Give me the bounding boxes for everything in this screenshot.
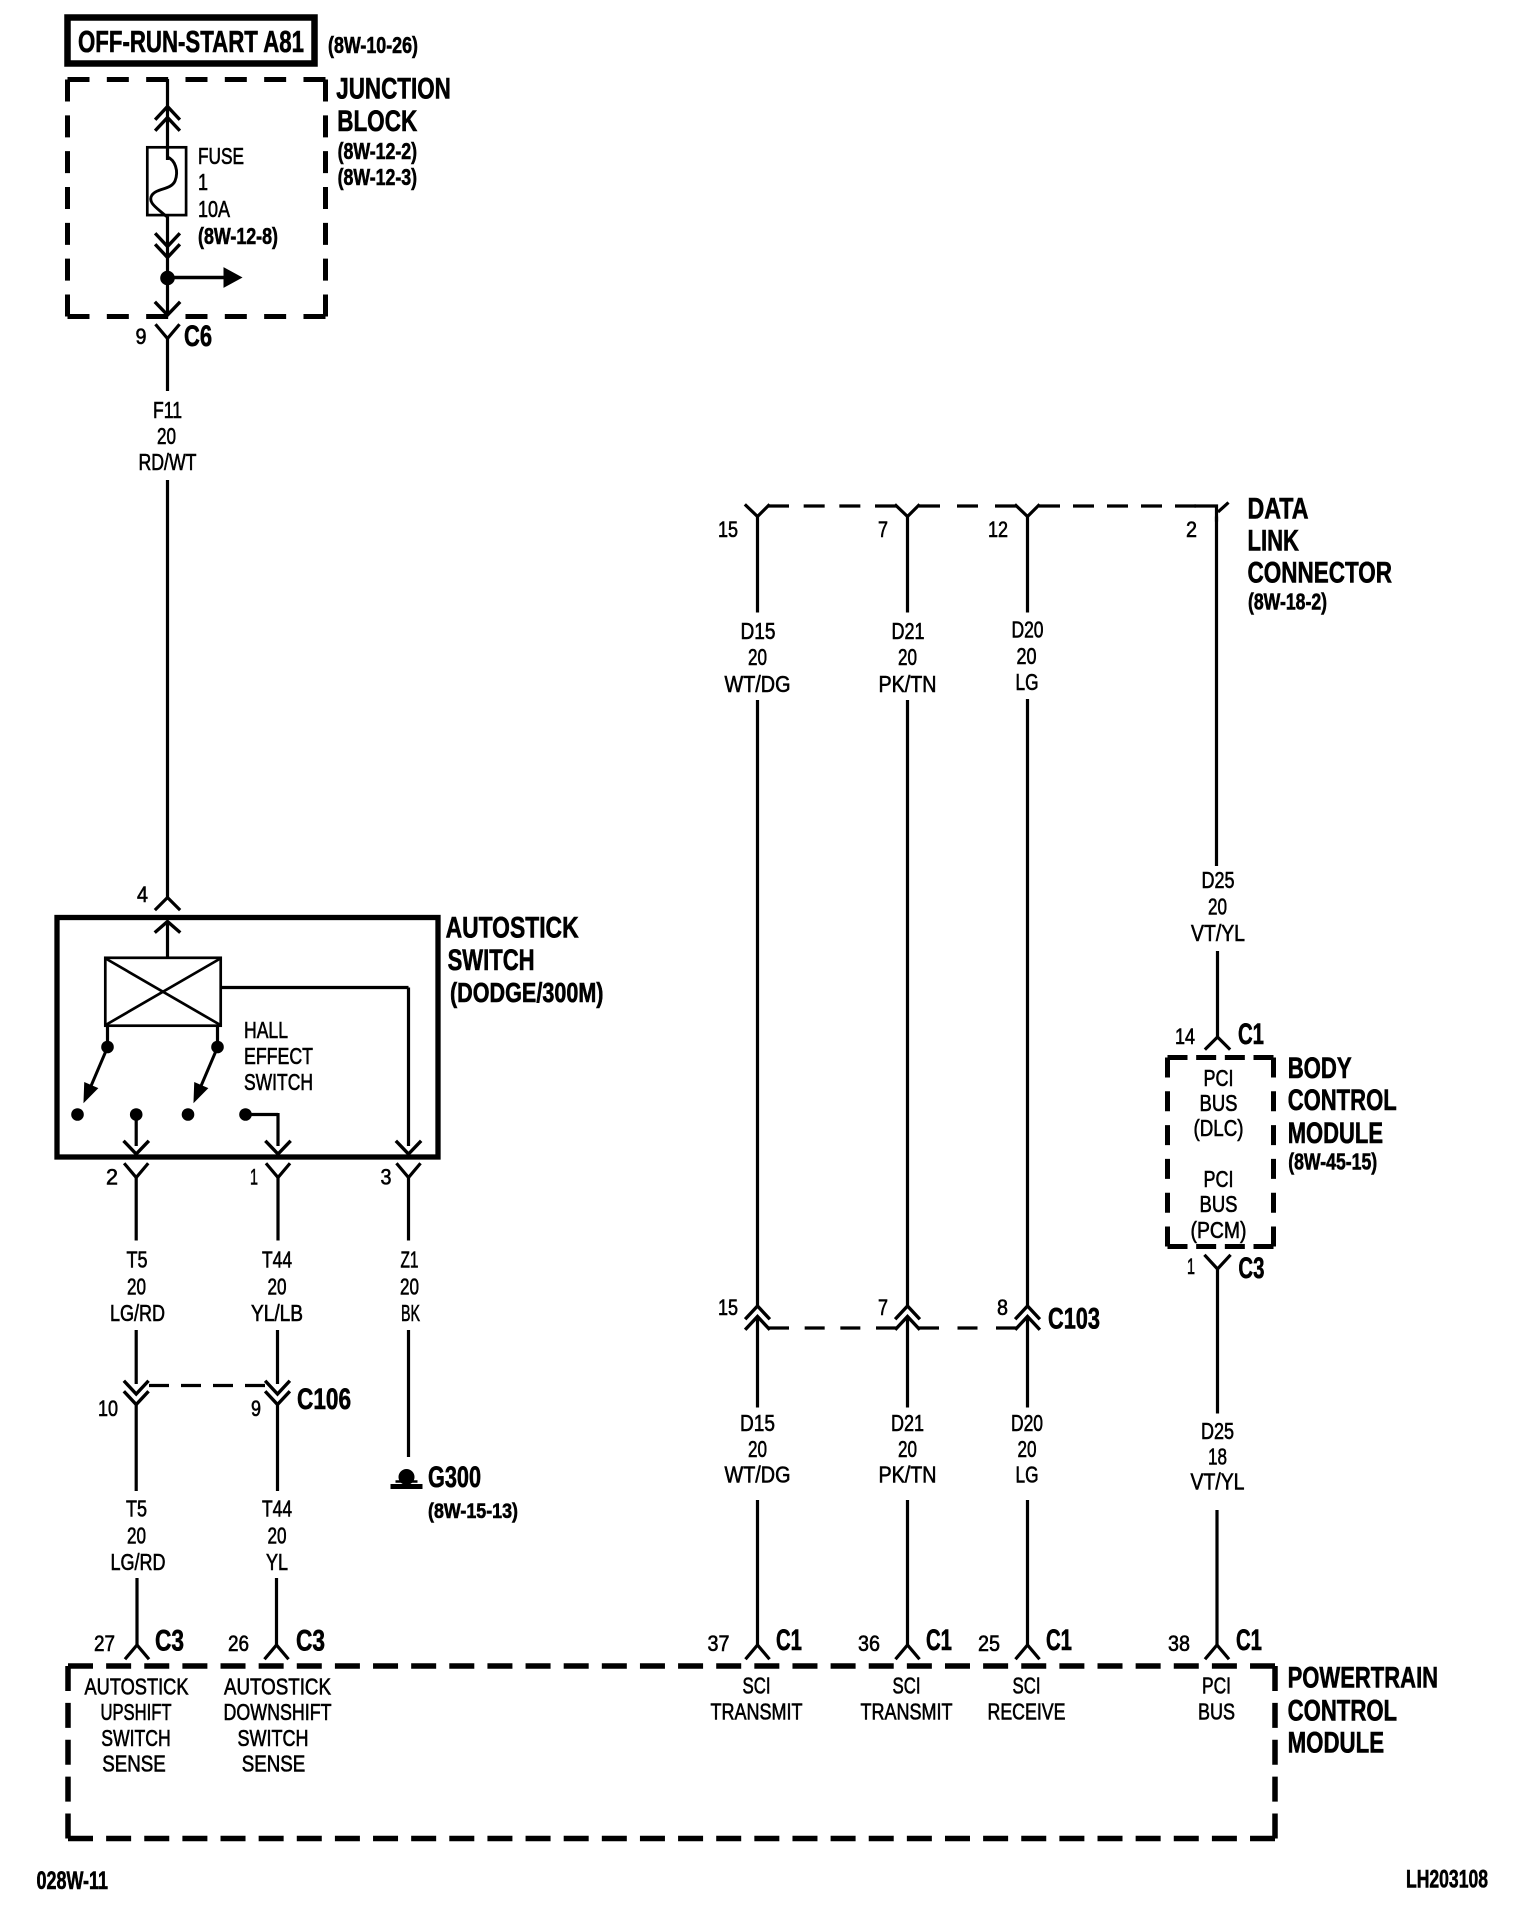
arrowhead at pin 3 — [397, 1142, 420, 1154]
switch contact left lower — [71, 1108, 84, 1121]
connector C106 pin 9 — [251, 1382, 289, 1421]
svg-text:RD/WT: RD/WT — [139, 449, 197, 475]
connector PCM pin 37 C1 — [708, 1624, 803, 1658]
svg-text:VT/YL: VT/YL — [1191, 920, 1245, 946]
svg-text:20: 20 — [157, 423, 176, 449]
svg-text:20: 20 — [127, 1523, 146, 1549]
svg-text:18: 18 — [1208, 1444, 1227, 1470]
svg-text:PCI: PCI — [1204, 1166, 1234, 1192]
wire D25 to PCM pin 38 — [1215, 1510, 1218, 1645]
junction block labels — [336, 73, 451, 190]
svg-text:C3: C3 — [296, 1625, 325, 1658]
wire label F11 20 RD/WT — [139, 397, 197, 475]
svg-text:YL: YL — [266, 1549, 288, 1575]
wire D20 to C103 — [1026, 699, 1029, 1306]
svg-text:C1: C1 — [1236, 1624, 1262, 1657]
connector chevrons above fuse — [156, 107, 178, 130]
arrowhead into C6 — [156, 303, 179, 315]
data link connector labels — [1248, 492, 1393, 614]
body control module dashed box — [1168, 1055, 1274, 1060]
svg-text:1: 1 — [1187, 1254, 1195, 1279]
svg-text:SWITCH: SWITCH — [448, 944, 535, 977]
svg-text:JUNCTION: JUNCTION — [336, 73, 451, 106]
svg-text:27: 27 — [94, 1631, 115, 1656]
wire D20 below C103 — [1026, 1317, 1029, 1408]
svg-text:EFFECT: EFFECT — [244, 1043, 313, 1069]
switch contact right lower — [182, 1108, 195, 1121]
svg-text:LG: LG — [1016, 1462, 1039, 1488]
autostick switch labels — [446, 912, 604, 1009]
svg-text:37: 37 — [708, 1631, 730, 1656]
wire D15 to C103 — [756, 700, 759, 1306]
wire label T5 20 LG/RD lower — [111, 1496, 166, 1576]
wire label D20 20 LG lower — [1011, 1410, 1043, 1488]
connector BCM pin 1 C3 — [1187, 1252, 1264, 1285]
hall effect device crossed box — [105, 958, 220, 1026]
wire: junction node to connector C6 — [166, 278, 169, 315]
C103 dashed link 7-8 — [919, 1326, 1016, 1329]
svg-text:D21: D21 — [891, 1410, 924, 1436]
DLC pin 7 — [878, 506, 919, 543]
svg-text:1: 1 — [250, 1165, 258, 1190]
wire T5 below C106 — [135, 1405, 138, 1492]
svg-text:20: 20 — [1017, 643, 1037, 669]
autostick switch box — [57, 918, 438, 1158]
svg-text:20: 20 — [1018, 1436, 1037, 1462]
svg-text:C103: C103 — [1048, 1303, 1100, 1336]
svg-text:C1: C1 — [1238, 1018, 1264, 1051]
wire D25 from BCM to label — [1216, 1269, 1219, 1414]
wire label T44 20 YL/LB — [251, 1247, 303, 1327]
svg-text:TRANSMIT: TRANSMIT — [861, 1699, 953, 1725]
wire label Z1 20 BK — [400, 1247, 420, 1327]
wire T44 upper — [276, 1178, 279, 1241]
connector pin 4 of autostick switch — [137, 882, 179, 909]
ground G300 — [391, 1461, 519, 1523]
svg-text:T44: T44 — [262, 1496, 292, 1522]
svg-text:SCI: SCI — [893, 1673, 921, 1699]
PCM internal labels — [85, 1673, 1236, 1777]
svg-text:C3: C3 — [1238, 1252, 1264, 1285]
svg-text:C106: C106 — [297, 1383, 351, 1416]
svg-text:9: 9 — [251, 1396, 261, 1421]
svg-text:C3: C3 — [155, 1625, 184, 1658]
wire label D25 20 VT/YL — [1191, 867, 1245, 946]
svg-text:7: 7 — [878, 1295, 888, 1320]
svg-text:WT/DG: WT/DG — [725, 1462, 791, 1488]
svg-text:D15: D15 — [740, 1410, 775, 1436]
power feed box OFF-RUN-START A81 — [68, 18, 315, 64]
connector BCM pin 14 C1 — [1175, 1018, 1264, 1051]
wire D20 upper — [1026, 517, 1029, 613]
wire: pin 4 to hall effect device — [166, 922, 169, 957]
wire D20 to PCM pin 25 — [1026, 1500, 1029, 1645]
svg-text:20: 20 — [898, 644, 917, 670]
svg-text:15: 15 — [718, 1295, 738, 1320]
arrowhead at pin 2 — [125, 1142, 148, 1154]
wire D15 upper — [756, 517, 759, 613]
DLC pin 12 — [988, 506, 1039, 543]
svg-text:(DODGE/300M): (DODGE/300M) — [450, 977, 604, 1008]
svg-text:LH203108: LH203108 — [1406, 1866, 1488, 1894]
svg-text:DATA: DATA — [1248, 492, 1309, 525]
DLC pin 15 — [718, 506, 769, 543]
svg-text:HALL: HALL — [244, 1017, 288, 1043]
branch arrow to other circuits — [168, 268, 242, 287]
svg-text:SWITCH: SWITCH — [101, 1725, 171, 1751]
label HALL EFFECT SWITCH — [244, 1017, 313, 1095]
wire D15 to PCM pin 37 — [756, 1500, 759, 1645]
wire label T44 20 YL lower — [262, 1496, 292, 1576]
DLC pin 2 — [1186, 503, 1229, 543]
svg-text:OFF-RUN-START A81: OFF-RUN-START A81 — [78, 24, 304, 59]
wire label T5 20 LG/RD — [110, 1247, 165, 1327]
switch contact stub right — [211, 1025, 224, 1053]
svg-text:AUTOSTICK: AUTOSTICK — [446, 912, 579, 945]
svg-text:12: 12 — [988, 517, 1008, 542]
svg-text:20: 20 — [748, 644, 767, 670]
BCM internal labels PCI BUS — [1191, 1065, 1247, 1243]
wire D21 upper — [906, 517, 909, 613]
svg-text:20: 20 — [748, 1436, 767, 1462]
svg-text:CONTROL: CONTROL — [1288, 1694, 1398, 1727]
svg-text:20: 20 — [400, 1274, 419, 1300]
svg-text:3: 3 — [381, 1165, 392, 1190]
svg-text:20: 20 — [1208, 894, 1227, 920]
C103 dashed link 15-7 — [769, 1326, 896, 1329]
wire T5 to PCM pin 27 — [135, 1578, 138, 1645]
svg-text:UPSHIFT: UPSHIFT — [101, 1699, 172, 1725]
connector PCM pin 26 C3 — [228, 1625, 325, 1659]
wire D21 to PCM pin 36 — [906, 1500, 909, 1645]
svg-text:2: 2 — [106, 1165, 118, 1190]
svg-text:1: 1 — [198, 169, 208, 195]
connector chevrons below fuse — [156, 235, 178, 258]
svg-text:C1: C1 — [1046, 1624, 1072, 1657]
powertrain control module dashed box — [68, 1663, 1275, 1669]
svg-text:MODULE: MODULE — [1288, 1117, 1383, 1150]
svg-text:(DLC): (DLC) — [1194, 1115, 1244, 1141]
junction block dashed box — [68, 77, 326, 82]
svg-text:(8W-15-13): (8W-15-13) — [428, 1500, 518, 1523]
svg-text:SENSE: SENSE — [242, 1751, 306, 1777]
svg-text:T5: T5 — [127, 1247, 148, 1273]
svg-text:T5: T5 — [126, 1496, 147, 1522]
wire D25 to BCM — [1216, 951, 1219, 1037]
wire Z1 to ground — [407, 1330, 410, 1457]
connector PCM pin 25 C1 — [978, 1624, 1072, 1658]
connector C106 dashed link — [149, 1384, 265, 1387]
svg-text:PCI: PCI — [1202, 1673, 1231, 1699]
svg-text:BUS: BUS — [1200, 1191, 1238, 1217]
svg-text:LG: LG — [1016, 669, 1039, 695]
svg-text:VT/YL: VT/YL — [1191, 1469, 1245, 1495]
svg-text:Z1: Z1 — [401, 1247, 419, 1273]
svg-text:LG/RD: LG/RD — [110, 1300, 165, 1326]
svg-text:G300: G300 — [428, 1461, 481, 1494]
svg-text:LINK: LINK — [1248, 525, 1300, 558]
svg-text:D25: D25 — [1202, 867, 1235, 893]
svg-text:PK/TN: PK/TN — [879, 671, 937, 697]
body control module labels — [1288, 1052, 1397, 1175]
svg-text:DOWNSHIFT: DOWNSHIFT — [224, 1699, 332, 1725]
svg-text:BODY: BODY — [1288, 1052, 1352, 1085]
svg-text:PK/TN: PK/TN — [879, 1462, 937, 1488]
svg-text:LG/RD: LG/RD — [111, 1549, 166, 1575]
svg-text:CONNECTOR: CONNECTOR — [1248, 556, 1393, 589]
wire T5 upper — [135, 1178, 138, 1241]
svg-text:20: 20 — [268, 1274, 287, 1300]
wire label D21 20 PK/TN — [879, 618, 937, 697]
arrowhead at pin 1 — [267, 1142, 290, 1154]
wire D15 below C103 — [756, 1317, 759, 1408]
wire label D15 20 WT/DG — [725, 618, 791, 697]
svg-text:20: 20 — [268, 1523, 287, 1549]
svg-text:SCI: SCI — [743, 1673, 771, 1699]
svg-text:7: 7 — [878, 517, 888, 542]
svg-text:YL/LB: YL/LB — [251, 1300, 303, 1326]
svg-text:F11: F11 — [153, 397, 182, 423]
svg-text:BLOCK: BLOCK — [337, 105, 417, 138]
connector C106 pin 10 — [98, 1382, 147, 1421]
connector C103 pin 15 — [718, 1295, 769, 1329]
svg-text:AUTOSTICK: AUTOSTICK — [85, 1673, 190, 1699]
fuse labels — [198, 143, 278, 249]
contact to pin 1 — [239, 1108, 278, 1146]
wire label D21 20 PK/TN lower — [879, 1410, 937, 1488]
switch blade right with arrow — [194, 1052, 216, 1102]
wire F11 lower — [166, 480, 169, 898]
svg-text:(8W-12-8): (8W-12-8) — [198, 223, 278, 249]
svg-text:D25: D25 — [1201, 1418, 1234, 1444]
svg-text:(8W-45-15): (8W-45-15) — [1288, 1148, 1377, 1174]
connector C6 pin 9 — [136, 320, 213, 353]
wire T5 to C106 — [135, 1330, 138, 1384]
svg-text:20: 20 — [127, 1274, 146, 1300]
svg-text:(8W-12-3): (8W-12-3) — [338, 164, 418, 190]
contact to pin 2 — [130, 1108, 143, 1146]
svg-text:10A: 10A — [198, 196, 231, 222]
svg-text:BUS: BUS — [1198, 1699, 1235, 1725]
svg-text:4: 4 — [137, 882, 148, 907]
fuse 1 10A — [147, 147, 186, 216]
svg-text:10: 10 — [98, 1396, 118, 1421]
svg-text:25: 25 — [978, 1631, 1000, 1656]
svg-text:9: 9 — [136, 324, 147, 349]
powertrain control module labels — [1288, 1662, 1439, 1760]
svg-text:15: 15 — [718, 517, 738, 542]
wire: A81 feed to fuse — [166, 79, 169, 160]
svg-text:2: 2 — [1186, 517, 1197, 542]
svg-text:CONTROL: CONTROL — [1288, 1084, 1397, 1117]
svg-text:C6: C6 — [184, 320, 212, 353]
connector pin 1 — [250, 1165, 289, 1190]
svg-text:D21: D21 — [892, 618, 925, 644]
svg-text:26: 26 — [228, 1631, 249, 1656]
wire T44 to PCM pin 26 — [275, 1578, 278, 1645]
svg-text:BK: BK — [401, 1300, 420, 1326]
svg-text:38: 38 — [1168, 1631, 1190, 1656]
wire label D20 20 LG — [1012, 617, 1044, 696]
svg-text:14: 14 — [1175, 1024, 1195, 1049]
wire: hall device to pin 3 — [222, 988, 409, 1147]
svg-text:SWITCH: SWITCH — [244, 1069, 313, 1095]
wire: fuse to junction node — [166, 217, 169, 279]
svg-text:POWERTRAIN: POWERTRAIN — [1288, 1662, 1439, 1695]
svg-text:8: 8 — [997, 1295, 1008, 1320]
svg-text:MODULE: MODULE — [1288, 1727, 1385, 1760]
switch contact stub left — [101, 1025, 114, 1053]
svg-text:SCI: SCI — [1013, 1673, 1041, 1699]
svg-text:BUS: BUS — [1200, 1090, 1238, 1116]
svg-text:AUTOSTICK: AUTOSTICK — [224, 1673, 332, 1699]
svg-text:D20: D20 — [1011, 1410, 1043, 1436]
wire D21 below C103 — [906, 1317, 909, 1408]
svg-text:T44: T44 — [262, 1247, 292, 1273]
junction node — [160, 271, 175, 286]
connector C103 pin 7 — [878, 1295, 919, 1329]
svg-text:D20: D20 — [1012, 617, 1044, 643]
svg-text:20: 20 — [898, 1436, 917, 1462]
connector pin 3 — [381, 1165, 420, 1190]
arrowhead into switch at pin 4 — [156, 922, 179, 932]
svg-text:SENSE: SENSE — [102, 1751, 166, 1777]
wire T44 to C106 — [276, 1330, 279, 1384]
svg-text:(8W-18-2): (8W-18-2) — [1248, 588, 1327, 614]
svg-text:36: 36 — [858, 1631, 880, 1656]
switch blade left with arrow — [84, 1052, 106, 1102]
connector C103 pin 8 — [997, 1295, 1039, 1329]
svg-text:(PCM): (PCM) — [1191, 1217, 1247, 1243]
svg-text:028W-11: 028W-11 — [37, 1867, 109, 1895]
connector PCM pin 36 C1 — [858, 1624, 952, 1658]
data link connector dashed bus — [768, 504, 1196, 507]
wire label D25 18 VT/YL — [1191, 1418, 1245, 1495]
svg-text:C1: C1 — [776, 1624, 802, 1657]
wire T44 below C106 — [276, 1405, 279, 1492]
connector PCM pin 38 C1 — [1168, 1624, 1262, 1658]
svg-text:(8W-10-26): (8W-10-26) — [328, 32, 418, 58]
svg-text:SWITCH: SWITCH — [238, 1725, 309, 1751]
svg-text:D15: D15 — [741, 618, 776, 644]
svg-text:(8W-12-2): (8W-12-2) — [338, 138, 418, 164]
wire F11 upper — [166, 339, 169, 392]
svg-text:WT/DG: WT/DG — [725, 671, 791, 697]
connector pin 2 — [106, 1165, 147, 1190]
connector PCM pin 27 C3 — [94, 1625, 184, 1659]
wire D25 upper — [1215, 517, 1218, 867]
svg-text:TRANSMIT: TRANSMIT — [711, 1699, 803, 1725]
svg-text:RECEIVE: RECEIVE — [988, 1699, 1066, 1725]
wire Z1 upper — [407, 1178, 410, 1241]
wire D21 to C103 — [906, 700, 909, 1306]
wire label D15 20 WT/DG lower — [725, 1410, 791, 1488]
svg-text:C1: C1 — [926, 1624, 952, 1657]
svg-text:FUSE: FUSE — [198, 143, 244, 169]
svg-text:PCI: PCI — [1204, 1065, 1234, 1091]
